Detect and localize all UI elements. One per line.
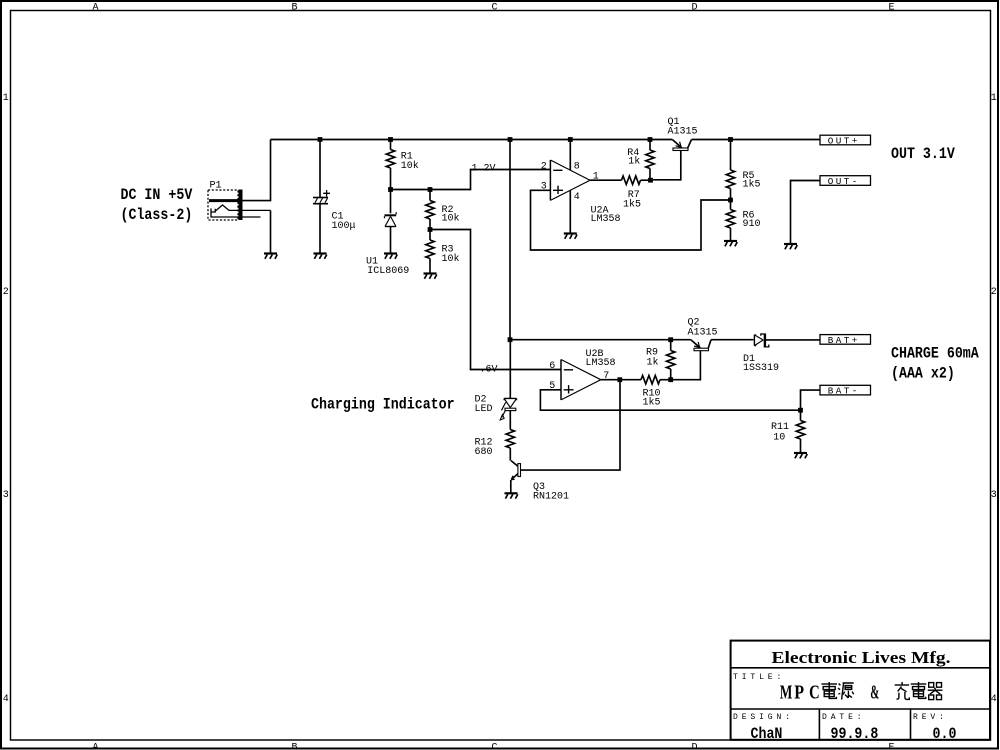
wire R3 to ground [429,259,431,273]
svg-text:BAT-: BAT- [828,386,860,397]
title kanji gen [838,683,854,700]
title kanji ki [928,683,943,700]
wire C1 to ground [319,204,321,253]
resistor R6 [726,210,734,228]
wire R2 to 0.6V node [429,219,431,230]
wire rail to R5 [730,140,732,171]
svg-text:OUT+: OUT+ [828,136,860,147]
wire U1 to ground [390,227,392,254]
op-amp U2A triangle [550,160,590,200]
wire 0.6V node to U2B pin6 [430,230,561,370]
svg-text:B: B [292,2,298,13]
connector P1 dashed body [208,190,238,220]
title kanji den 2 [911,682,927,698]
svg-text:Charging Indicator: Charging Indicator [311,397,455,414]
svg-text:.6V: .6V [480,364,498,375]
wire junction to D2 [509,340,511,399]
svg-text:1k5: 1k5 [623,199,641,211]
svg-text:(AAA x2): (AAA x2) [891,366,955,383]
svg-text:A1315: A1315 [668,127,698,138]
svg-text:2: 2 [991,287,997,298]
svg-text:RN1201: RN1201 [533,492,569,503]
connector OUT- box [820,176,871,186]
transistor Q1 [653,140,692,180]
svg-text:A: A [93,742,99,750]
ground at U2A pin4 [564,234,577,239]
wire U2A pin8 power [569,140,571,170]
svg-text:REV:: REV: [913,713,948,722]
svg-text:1.2V: 1.2V [472,164,496,175]
node R2 top junction [428,187,433,192]
node R5 top junction [728,137,733,142]
wire 0.6V node to R3 [429,230,431,241]
resistor R2 [426,201,434,219]
svg-text:10k: 10k [442,213,460,225]
ground at R11 [794,453,807,458]
resistor R1 [386,150,394,168]
svg-text:4: 4 [574,192,580,203]
wire D2 to R12 [509,411,511,430]
ground at R6 [724,241,737,246]
wire OUT- to ground [791,181,821,244]
wire R10 to Q2 base node [660,379,671,381]
resistor R12 [506,430,514,448]
ground at OUT- [784,244,797,249]
node U2A pin8 rail junction [568,137,573,142]
wire rail to R1 [390,140,392,150]
wire U2A out to R7 [590,179,622,181]
svg-text:D: D [692,2,698,13]
svg-text:C: C [809,682,820,704]
connector BAT+ box [820,335,871,345]
wire U2B out to R10 [601,379,641,381]
diode U1 ICL8069 [385,212,397,226]
wire R11 to ground [800,439,802,453]
transistor Q2 [673,340,711,380]
wire R12 to Q3 collector [509,448,511,461]
svg-text:&: & [870,682,879,704]
wire sense node to R11 [800,410,802,420]
wire R9 top [670,340,672,351]
svg-text:1SS319: 1SS319 [743,363,779,374]
wire Q2 collector to D1 [711,339,754,341]
svg-text:99.9.8: 99.9.8 [831,726,879,743]
node D2 branch junction [508,337,513,342]
svg-text:(Class-2): (Class-2) [121,207,193,224]
wire U2A pin3 feedback [531,190,731,250]
svg-text:CHARGE 60mA: CHARGE 60mA [891,346,979,363]
diode D1 1SS319 [754,334,768,348]
svg-text:E: E [889,2,895,13]
wire R5 to divider node [730,189,732,201]
connector OUT+ box [820,135,871,145]
svg-text:DATE:: DATE: [822,713,866,722]
connector P1 bar [239,190,243,221]
svg-text:Electronic Lives Mfg.: Electronic Lives Mfg. [772,648,951,667]
svg-text:BAT+: BAT+ [828,335,860,346]
wire D1 to BAT+ [766,339,820,341]
node Q3 base drive junction [617,377,622,382]
title kanji den 1 [821,682,837,698]
svg-text:D: D [692,742,698,750]
wire Q3 base to U2B out [521,380,621,471]
LED D2 [500,398,516,420]
svg-text:OUT-: OUT- [828,176,860,187]
svg-text:DC IN +5V: DC IN +5V [121,187,193,204]
wire +5V drop to charge section [509,140,511,340]
svg-text:3: 3 [991,490,997,501]
svg-text:A: A [93,2,99,13]
transistor Q3 [511,461,521,493]
svg-text:1k: 1k [628,156,640,168]
svg-text:0.0: 0.0 [933,726,957,743]
wire BAT- to sense node [801,390,821,410]
title block frame [731,641,990,740]
svg-text:4: 4 [991,694,997,705]
svg-text:1k: 1k [647,356,659,368]
node R5 R6 divider junction [728,198,733,203]
node 1.2V reference junction [388,187,393,192]
svg-text:100μ: 100μ [332,221,356,232]
ground at U1 [384,254,397,259]
svg-text:A1315: A1315 [688,328,718,339]
svg-text:6: 6 [549,361,555,372]
wire U2A pin4 to ground [569,191,571,233]
svg-text:1: 1 [991,93,997,104]
resistor R11 [796,421,804,439]
wire 1.2V node to U1 [390,190,392,214]
wire P1 sleeve to ground [270,210,272,253]
ground at P1 [264,254,277,259]
wire Q1 collector to OUT+ [692,139,820,141]
node +5V drop rail junction [508,137,513,142]
svg-text:M: M [780,682,793,704]
wire rail to C1 [319,140,321,198]
wire R4 to base node [649,169,651,181]
wire +5V to Q2 emitter [510,339,691,341]
svg-text:10k: 10k [401,160,419,172]
wire 1.2V node to U2A pin2 [391,170,551,190]
svg-text:E: E [889,742,895,750]
svg-text:1k5: 1k5 [643,397,661,409]
connector BAT- box [820,385,871,395]
svg-text:P1: P1 [210,180,222,191]
node Q1 base junction [648,178,653,183]
svg-text:C: C [492,742,498,750]
node R1 rail junction [388,137,393,142]
node R4 rail junction [648,137,653,142]
wire U2B pin5 sense [540,390,800,410]
svg-text:DESIGN:: DESIGN: [733,713,794,722]
svg-text:OUT 3.1V: OUT 3.1V [891,146,955,163]
wire junction to R2 [429,190,431,201]
resistor R7 [622,176,641,184]
svg-text:LM358: LM358 [586,358,616,369]
wire junction to R9 [670,369,672,380]
resistor R4 [646,150,654,168]
svg-text:4: 4 [3,694,9,705]
connector P1 center pin [209,199,239,202]
svg-text:ChaN: ChaN [751,726,783,743]
svg-text:1: 1 [3,93,9,104]
svg-text:10k: 10k [442,253,460,265]
wire +5V top rail [271,139,673,141]
svg-text:10: 10 [773,432,785,443]
ground at Q3 [505,493,518,498]
node 0.6V junction [428,227,433,232]
wire P1 pin1 to +5V rail [243,140,271,201]
title kanji juu [895,682,910,699]
svg-text:3: 3 [3,490,9,501]
svg-text:TITLE:: TITLE: [733,673,785,682]
op-amp U2B triangle [561,360,601,400]
wire R1 to 1.2V node [390,168,392,190]
wire R6 to ground [730,228,732,240]
svg-text:2: 2 [3,287,9,298]
node R11 sense junction [798,408,803,413]
node R9 top junction [668,337,673,342]
svg-text:B: B [292,742,298,750]
wire divider to R6 [730,200,732,210]
svg-text:910: 910 [743,219,761,230]
svg-text:2: 2 [541,161,547,172]
resistor R3 [426,240,434,258]
ground at C1 [314,254,327,259]
svg-text:P: P [794,682,804,704]
svg-text:680: 680 [475,447,493,458]
wire R7 to base node [641,179,651,181]
svg-text:8: 8 [574,162,580,173]
svg-text:LM358: LM358 [591,214,621,225]
resistor R10 [641,376,660,384]
resistor R9 [667,351,675,369]
svg-text:C: C [492,2,498,13]
svg-text:ICL8069: ICL8069 [367,266,409,277]
capacitor C1 [313,190,330,204]
node Q2 base junction [668,377,673,382]
connector P1 switch contact [211,205,271,217]
wire rail to R4 [649,140,651,151]
ground at R3 [424,274,437,279]
svg-text:LED: LED [475,404,493,415]
resistor R5 [726,170,734,188]
svg-text:1k5: 1k5 [743,179,761,191]
node C1 rail junction [318,137,323,142]
